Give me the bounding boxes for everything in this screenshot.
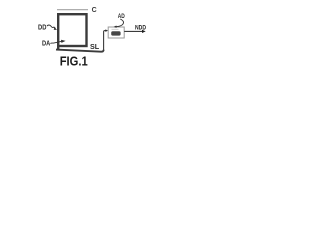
svg-text:C: C bbox=[92, 7, 97, 14]
svg-text:DA: DA bbox=[42, 38, 51, 47]
svg-text:DD: DD bbox=[38, 22, 47, 31]
leader DD squiggle bbox=[47, 25, 56, 29]
leader AD bbox=[116, 19, 124, 27]
wire left drop bbox=[57, 46, 59, 50]
svg-text:SL: SL bbox=[90, 42, 100, 51]
cover line above panel bbox=[57, 9, 88, 11]
arrowhead DA bbox=[61, 40, 66, 43]
arrowhead DD bbox=[54, 28, 58, 30]
wire SL riser bbox=[104, 31, 106, 51]
arrowhead into box AD bbox=[105, 29, 108, 32]
box AD faint inner mark bbox=[112, 28, 119, 30]
arrowhead AD bbox=[114, 26, 117, 28]
svg-text:AD: AD bbox=[118, 13, 125, 20]
box AD inner text blob bbox=[111, 31, 120, 35]
box AD bbox=[108, 27, 124, 38]
panel rectangle C bbox=[58, 14, 86, 46]
wire output to NDD bbox=[124, 30, 142, 32]
svg-text:NDD: NDD bbox=[135, 25, 146, 32]
arrowhead NDD bbox=[142, 30, 146, 33]
wire SL horizontal bbox=[56, 50, 104, 52]
leader DA bbox=[50, 41, 61, 43]
svg-text:FIG.1: FIG.1 bbox=[60, 53, 88, 68]
